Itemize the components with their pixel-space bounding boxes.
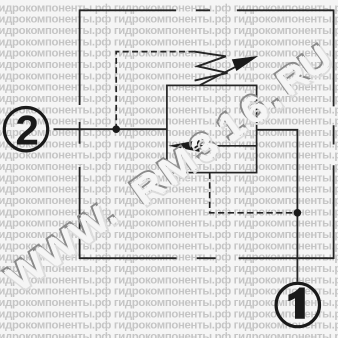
svg-text:гидрокомпоненты.рф гидрокомпон: гидрокомпоненты.рф гидрокомпоненты.рф ги…	[0, 14, 338, 26]
svg-text:гидрокомпоненты.рф гидрокомпон: гидрокомпоненты.рф гидрокомпоненты.рф ги…	[0, 127, 338, 139]
svg-text:2: 2	[16, 106, 39, 153]
svg-text:гидрокомпоненты.рф гидрокомпон: гидрокомпоненты.рф гидрокомпоненты.рф ги…	[0, 308, 338, 320]
svg-text:гидрокомпоненты.рф гидрокомпон: гидрокомпоненты.рф гидрокомпоненты.рф ги…	[0, 116, 338, 128]
svg-text:гидрокомпоненты.рф гидрокомпон: гидрокомпоненты.рф гидрокомпоненты.рф ги…	[0, 25, 338, 37]
svg-text:гидрокомпоненты.рф гидрокомпон: гидрокомпоненты.рф гидрокомпоненты.рф ги…	[0, 2, 338, 14]
svg-text:гидрокомпоненты.рф гидрокомпон: гидрокомпоненты.рф гидрокомпоненты.рф ги…	[0, 297, 338, 309]
svg-text:гидрокомпоненты.рф гидрокомпон: гидрокомпоненты.рф гидрокомпоненты.рф ги…	[0, 331, 338, 338]
svg-text:гидрокомпоненты.рф гидрокомпон: гидрокомпоненты.рф гидрокомпоненты.рф ги…	[0, 36, 338, 48]
